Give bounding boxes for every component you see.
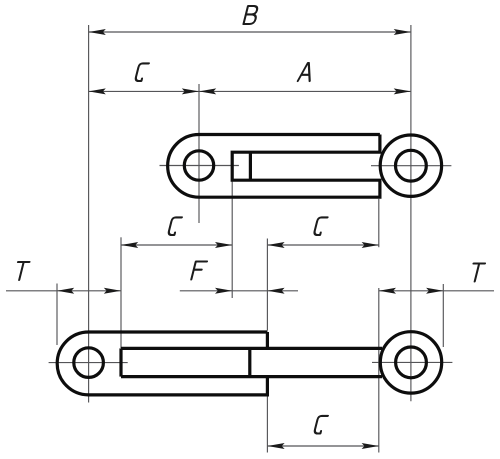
arrow T-right east: [426, 288, 443, 294]
label A: [298, 63, 314, 81]
arrow T-left west: [57, 288, 74, 294]
arrow C mid-left right: [215, 242, 232, 248]
wire extension line x=121: [120, 237, 122, 348]
wire extension line x=267.4 upper: [266, 239, 268, 331]
wire dimension line C bottom: [267, 445, 379, 447]
wire extension line x=232.2: [231, 182, 233, 299]
wire extension line x=443.3: [442, 284, 444, 347]
arrow B right: [394, 29, 411, 35]
wire extension line x=267.4 lower: [266, 396, 268, 453]
arrow C-top right: [182, 88, 199, 94]
bottom link slot left edge: [119, 348, 122, 376]
label C middle-left: [168, 217, 182, 235]
top link plate outline: [168, 135, 380, 198]
wire dimension line F: [180, 290, 298, 292]
arrow F right outside pointing left: [267, 288, 284, 294]
bottom link left hole: [74, 348, 104, 378]
bottom link slot divider: [248, 348, 251, 376]
arrow B left: [89, 29, 106, 35]
label C top: [135, 63, 149, 81]
thick outlines: [57, 135, 442, 395]
bottom link ring inner: [396, 347, 427, 378]
wire top hole centerline x=199: [198, 84, 200, 223]
bottom link slot and bar bottom edge: [121, 375, 382, 378]
top link left hole: [184, 151, 213, 180]
bottom link plate outline: [57, 332, 267, 395]
arrow A right: [394, 88, 411, 94]
arrow F left outside pointing right: [215, 288, 232, 294]
wire dimension line B: [89, 31, 411, 33]
label B: [244, 6, 259, 24]
wire bottom-left horizontal centerline: [49, 362, 128, 364]
wire dimension line T right: [379, 290, 494, 292]
label T right: [469, 264, 485, 282]
arrow C bottom left: [267, 443, 284, 449]
wire extension line B-right / rings centerline x=410.9: [410, 25, 412, 401]
arrow C mid-right right: [362, 242, 379, 248]
top link ring outer: [380, 135, 441, 196]
label F: [191, 262, 207, 280]
wire dimension line T left: [6, 290, 121, 292]
wire extension line x=378.8 lower: [378, 288, 380, 453]
wire dimension line C middle-right: [267, 244, 378, 246]
bottom link slot and bar top edge: [121, 347, 382, 350]
arrow T-right west: [379, 288, 396, 294]
top link ring inner: [396, 150, 427, 181]
arrow C mid-left left: [121, 242, 138, 248]
top link slot divider: [249, 152, 252, 180]
arrow C-top left: [89, 88, 106, 94]
arrow T-left east: [104, 288, 121, 294]
label T left: [14, 262, 30, 280]
wire dimension line C middle-left: [121, 244, 232, 246]
arrow A left: [199, 88, 216, 94]
wire top-left horizontal centerline: [160, 165, 239, 167]
wire extension line B-left / bottom hole centerline x=88.6: [88, 25, 90, 403]
label C bottom: [314, 416, 328, 434]
wire extension line x=57: [56, 284, 58, 346]
bottom link ring outer: [380, 332, 441, 393]
label C middle-right: [314, 217, 328, 235]
wire top-right ring horizontal centerline: [371, 165, 451, 167]
arrowheads: [57, 29, 443, 449]
wire extension line x=378.8 upper: [378, 199, 380, 247]
wire dimension line C-top and A: [89, 90, 411, 92]
arrow C mid-right left: [267, 242, 284, 248]
wire bottom-right ring horizontal centerline: [372, 361, 452, 363]
arrow C bottom right: [362, 443, 379, 449]
